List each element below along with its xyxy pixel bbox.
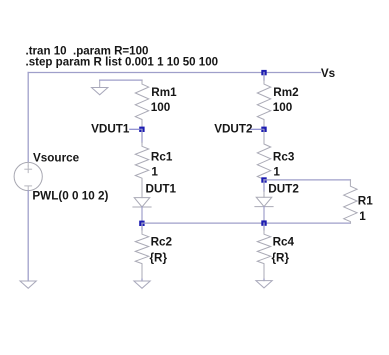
- wire Vsource bottom to ground: [27, 191, 29, 281]
- svg-text:PWL(0 0 10 2): PWL(0 0 10 2): [32, 189, 108, 202]
- svg-text:.step param R list 0.001 1 10: .step param R list 0.001 1 10 50 100: [26, 56, 219, 68]
- svg-text:Rm2: Rm2: [273, 86, 299, 99]
- resistor Rc4: [257, 230, 270, 279]
- wire Rc2 to ground: [141, 279, 143, 281]
- svg-text:Rm1: Rm1: [151, 86, 177, 99]
- node VDUT2 junction dot: [261, 127, 266, 132]
- wire bottom horizontal to R1: [142, 222, 350, 224]
- svg-text:1: 1: [359, 210, 366, 223]
- node junction dot mid col2: [261, 177, 266, 182]
- ground col2 bottom: [256, 281, 272, 288]
- wire R1 top horizontal: [264, 179, 350, 181]
- svg-text:1: 1: [151, 165, 158, 178]
- svg-text:Rc3: Rc3: [273, 150, 295, 163]
- svg-text:VDUT1: VDUT1: [91, 123, 130, 136]
- svg-text:Rc1: Rc1: [151, 150, 173, 163]
- resistor Rc1: [135, 142, 148, 191]
- wire junction to Rc2: [141, 223, 143, 230]
- ground top near Rm1: [92, 80, 108, 95]
- svg-text:Rc2: Rc2: [151, 236, 173, 249]
- svg-text:{R}: {R}: [272, 252, 290, 265]
- wire ground link to Rm1 top: [100, 79, 142, 81]
- resistor Rm2: [257, 80, 270, 129]
- svg-text:1: 1: [273, 165, 280, 178]
- svg-text:100: 100: [273, 101, 293, 114]
- voltage source Vsource: [14, 162, 42, 190]
- svg-text:Rc4: Rc4: [273, 236, 295, 249]
- svg-text:VDUT2: VDUT2: [214, 123, 253, 136]
- wire left vertical to Vsource: [27, 73, 29, 163]
- wire junction to Rc4: [263, 223, 265, 230]
- wire junction to DUT2: [263, 180, 265, 191]
- svg-text:DUT1: DUT1: [146, 183, 177, 196]
- diode DUT2: [255, 191, 273, 223]
- svg-text:Vsource: Vsource: [33, 152, 80, 165]
- ground col1 bottom: [134, 281, 150, 288]
- svg-text:R1: R1: [358, 195, 373, 208]
- svg-text:Vs: Vs: [321, 67, 336, 80]
- ground left bottom: [20, 281, 36, 288]
- wire VDUT1 label stub: [130, 128, 142, 130]
- svg-text:{R}: {R}: [150, 252, 168, 265]
- resistor Rc3: [257, 129, 270, 179]
- node junction dot col2 bottom: [261, 220, 266, 225]
- diode DUT1: [133, 192, 151, 224]
- wire top rail Vs: [28, 72, 320, 74]
- resistor R1: [344, 180, 357, 223]
- svg-text:DUT2: DUT2: [268, 183, 299, 196]
- node VDUT1 junction dot: [139, 127, 144, 132]
- svg-text:100: 100: [151, 101, 171, 114]
- resistor Rc2: [135, 230, 148, 279]
- wire VDUT2 label stub: [250, 128, 264, 130]
- wire VDUT1 to Rc1: [141, 129, 143, 142]
- wire Rc4 to ground: [263, 279, 265, 280]
- node junction dot col1 bottom: [139, 221, 144, 226]
- resistor Rm1: [135, 80, 148, 129]
- node junction dot on rail: [261, 70, 266, 75]
- wire rail to Rm2: [263, 73, 265, 81]
